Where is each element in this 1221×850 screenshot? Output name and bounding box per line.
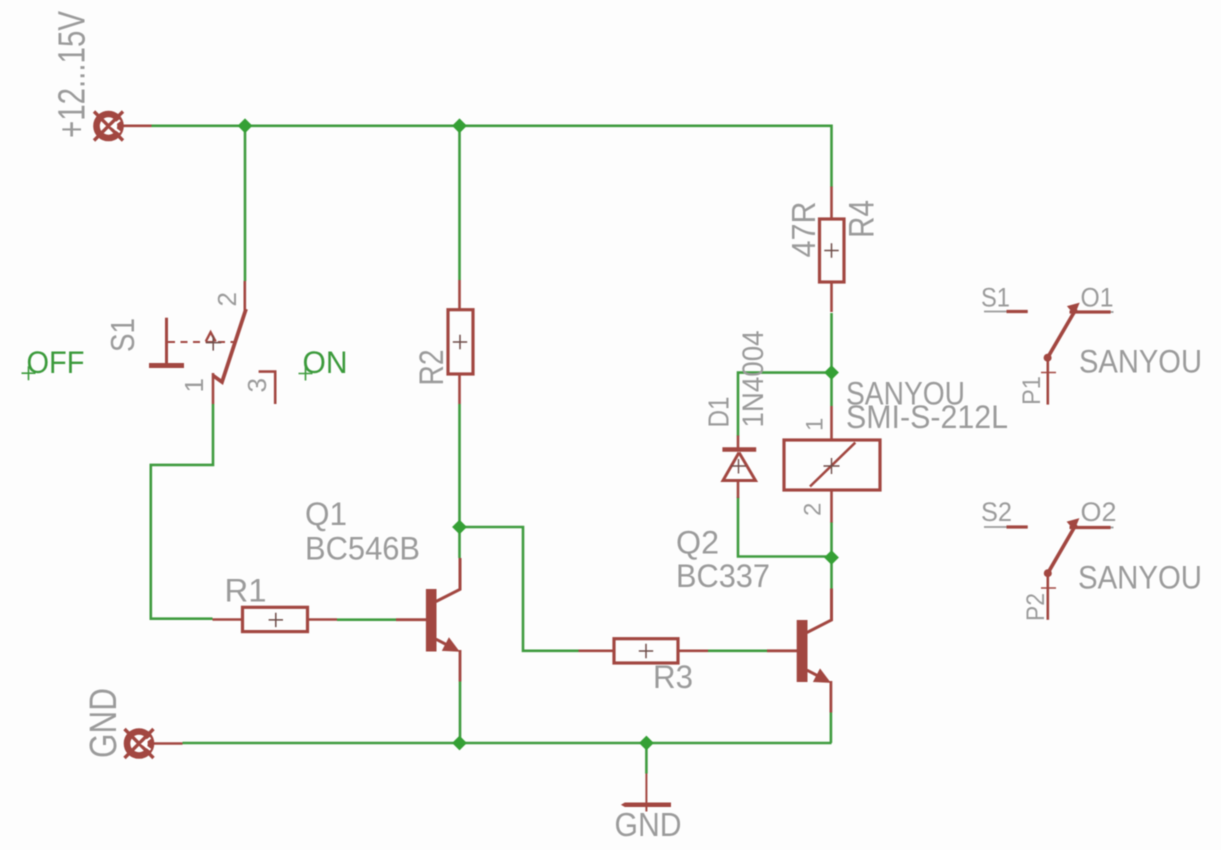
R4_GROUP bbox=[785, 187, 882, 313]
transistor Q2 emitter stroke bbox=[807, 670, 823, 678]
svg-text:S1: S1 bbox=[104, 318, 141, 352]
svg-text:BC546B: BC546B bbox=[305, 531, 420, 567]
resistor R3 origin cross bbox=[639, 644, 653, 658]
transistor Q2 base pin bbox=[767, 649, 798, 652]
relay contact 1 O pin gray line bbox=[1081, 311, 1114, 313]
svg-text:BC337: BC337 bbox=[676, 558, 770, 594]
wire S1 pin1 down-left-down to R1 left bbox=[151, 404, 213, 619]
ground pad GND (circle with X) bbox=[125, 729, 154, 758]
relay contact 1 S pin gray line bbox=[984, 311, 1028, 313]
svg-text:1: 1 bbox=[802, 418, 829, 431]
transistor Q1 collector stroke bbox=[436, 558, 460, 602]
switch S1 caret mark on link bbox=[206, 332, 216, 341]
node OFF origin cross bbox=[22, 366, 36, 380]
resistor R1 right pin bbox=[308, 618, 338, 621]
relay K1 pin 1 stub bbox=[830, 406, 833, 440]
resistor R2 bottom pin bbox=[458, 374, 461, 404]
wire S1 pin2 branch down from top rail bbox=[244, 126, 247, 281]
transistor Q2 base bar bbox=[797, 620, 808, 682]
R3_GROUP bbox=[579, 639, 709, 695]
ground symbol stem bbox=[645, 774, 647, 812]
resistor R1 origin cross bbox=[269, 613, 283, 627]
switch S1 mechanical dashed link bbox=[168, 341, 235, 343]
svg-text:D1: D1 bbox=[704, 397, 736, 428]
svg-text:1N4004: 1N4004 bbox=[737, 331, 770, 428]
relay contact 1 lever bbox=[1048, 309, 1076, 358]
switch S1 pin 2 stub bbox=[244, 281, 247, 311]
resistor R4 bottom pin bbox=[830, 282, 833, 312]
S1_GROUP bbox=[22, 281, 348, 404]
transistor Q1 emitter pin bbox=[459, 650, 462, 682]
relay contact 2 pivot dot bbox=[1044, 569, 1052, 577]
svg-text:O2: O2 bbox=[1081, 497, 1117, 527]
resistor R4 body bbox=[820, 219, 845, 282]
wire R2 bottom to Q1 collector node bbox=[458, 404, 461, 558]
JUNCTIONS_GROUP bbox=[238, 118, 839, 750]
transistor Q1 emitter stroke bbox=[436, 639, 452, 647]
relay K1 pin 2 stub bbox=[830, 490, 833, 523]
transistor Q1 base bar bbox=[426, 589, 437, 652]
relay contact 2 O pin stub bbox=[1070, 526, 1111, 529]
resistor R1 body bbox=[243, 607, 308, 631]
junction top rail / S1 branch bbox=[238, 118, 253, 133]
Q1_GROUP bbox=[305, 496, 460, 682]
resistor R4 top pin bbox=[830, 187, 833, 220]
relay contact 2 S pin stub bbox=[1007, 525, 1028, 528]
resistor R3 body bbox=[614, 639, 678, 663]
relay contact 1 lever arrowhead bbox=[1067, 303, 1080, 316]
svg-text:R2: R2 bbox=[413, 350, 451, 386]
switch S1 origin cross bbox=[206, 336, 221, 351]
switch S1 pin 1 stub bbox=[212, 373, 215, 404]
relay contact 2 lever arrowhead bbox=[1067, 518, 1080, 531]
svg-text:GND: GND bbox=[83, 688, 125, 758]
transistor Q2 emitter pin bbox=[830, 681, 833, 713]
relay contact 1 S pin stub bbox=[1007, 310, 1028, 313]
svg-text:R4: R4 bbox=[843, 200, 882, 238]
svg-text:2: 2 bbox=[212, 292, 242, 306]
relay contact 2 lever bbox=[1048, 525, 1076, 574]
svg-text:R3: R3 bbox=[653, 659, 693, 695]
transistor Q2 collector stroke bbox=[807, 589, 832, 633]
svg-text:S2: S2 bbox=[981, 497, 1012, 527]
GND2_GROUP bbox=[615, 774, 682, 844]
svg-text:Q2: Q2 bbox=[676, 525, 719, 561]
svg-text:2: 2 bbox=[800, 503, 827, 516]
node ON origin cross bbox=[299, 367, 313, 381]
switch S1 actuator plunger bbox=[165, 318, 168, 366]
svg-text:SMI-S-212L: SMI-S-212L bbox=[846, 399, 1008, 435]
switch S1 lever bbox=[213, 309, 246, 382]
transistor Q1 emitter arrow bbox=[442, 637, 460, 652]
diode D1 anode triangle bbox=[723, 453, 756, 481]
svg-text:ON: ON bbox=[303, 344, 348, 380]
ground pad pin stub bbox=[152, 742, 183, 745]
relay K1 coil box bbox=[784, 440, 880, 490]
junction relay pin2 / D1 / Q2 collector bbox=[824, 550, 839, 565]
relay contact 2 O pin gray line bbox=[1081, 527, 1114, 529]
wire bottom GND rail bbox=[183, 742, 832, 745]
svg-text:SANYOU: SANYOU bbox=[1079, 344, 1202, 380]
D1_GROUP bbox=[704, 331, 771, 499]
relay contact 1 P pin stub bbox=[1047, 359, 1050, 405]
resistor R2 top pin bbox=[458, 280, 461, 310]
resistor R1 left pin bbox=[213, 618, 243, 621]
junction Q1 collector / R3 branch bbox=[452, 520, 467, 535]
wire Q2 collector node to relay pin2 bbox=[830, 522, 833, 589]
svg-text:Q1: Q1 bbox=[305, 496, 347, 532]
junction bottom rail / Q1 emitter bbox=[452, 736, 467, 751]
junction top rail / R2 bbox=[452, 118, 467, 133]
relay K1 coil diagonal bbox=[810, 443, 855, 487]
svg-text:1: 1 bbox=[179, 378, 209, 392]
relay contact 1 O pin stub bbox=[1070, 310, 1111, 313]
R1_GROUP bbox=[213, 573, 338, 632]
switch S1 actuator base bar bbox=[149, 363, 184, 368]
relay K1 origin cross bbox=[824, 458, 840, 474]
Q2_GROUP bbox=[676, 525, 832, 713]
WIRES_GROUP bbox=[151, 126, 832, 774]
diode D1 origin cross bbox=[731, 459, 746, 474]
wire Q2 emitter to bottom rail bbox=[830, 713, 833, 744]
diode D1 cathode bar bbox=[722, 447, 756, 452]
wire R4 bottom to relay pin1 bbox=[830, 313, 833, 406]
svg-text:SANYOU: SANYOU bbox=[1078, 560, 1202, 596]
resistor R4 origin cross bbox=[824, 243, 838, 257]
CONTACT2_GROUP bbox=[981, 497, 1202, 621]
svg-text:O1: O1 bbox=[1081, 283, 1114, 313]
svg-text:OFF: OFF bbox=[27, 344, 85, 380]
junction bottom rail / GND2 bbox=[639, 736, 654, 751]
svg-text:+12...15V: +12...15V bbox=[52, 10, 94, 138]
wire D1 anode bottom across to Q2 collector node bbox=[738, 497, 832, 557]
wire Q1 emitter to bottom rail bbox=[459, 682, 462, 744]
wire R3 right to Q2 base bbox=[708, 649, 767, 652]
svg-text:3: 3 bbox=[242, 378, 272, 392]
switch S1 pin 3 stub bbox=[259, 372, 276, 404]
resistor R2 body bbox=[448, 310, 473, 374]
svg-text:47R: 47R bbox=[785, 202, 822, 258]
supply pin stub bbox=[122, 125, 152, 128]
diode D1 anode pin bottom bbox=[737, 479, 740, 498]
wire top rail to R2 top bbox=[458, 126, 461, 280]
supply symbol P+ pad (circle with X) bbox=[94, 112, 123, 141]
junction relay pin1 / D1 / R4 bbox=[824, 365, 839, 380]
R2_GROUP bbox=[413, 280, 473, 404]
ground symbol bar bbox=[621, 803, 671, 808]
wire R1 right to Q1 base bbox=[337, 618, 396, 621]
diode D1 cathode pin top bbox=[737, 436, 740, 451]
relay contact 2 S pin gray line bbox=[984, 526, 1028, 528]
resistor R3 left pin bbox=[579, 649, 615, 652]
svg-text:S1: S1 bbox=[981, 283, 1010, 313]
relay contact 1 origin tick bbox=[1041, 372, 1056, 374]
SUPPLY_GROUP bbox=[52, 10, 152, 140]
svg-text:R1: R1 bbox=[225, 573, 267, 609]
resistor R2 origin cross bbox=[453, 335, 467, 349]
resistor R3 right pin bbox=[678, 649, 708, 652]
relay contact 2 P pin stub bbox=[1047, 575, 1050, 620]
svg-text:GND: GND bbox=[615, 806, 682, 843]
wire D1 cathode top across to relay pin1 node bbox=[738, 373, 832, 436]
wire Q1 collector node to R3 left bbox=[460, 527, 579, 651]
CONTACT1_GROUP bbox=[981, 283, 1202, 406]
svg-text:P1: P1 bbox=[1018, 376, 1046, 405]
relay contact 1 pivot dot bbox=[1044, 354, 1052, 362]
wire top +12V rail from supply to R4 drop bbox=[152, 126, 832, 187]
GND1_GROUP bbox=[83, 688, 183, 758]
svg-text:P2: P2 bbox=[1022, 593, 1050, 621]
relay contact 2 origin tick bbox=[1041, 587, 1056, 589]
transistor Q2 emitter arrow bbox=[813, 668, 831, 683]
RELAY_GROUP bbox=[784, 376, 1008, 523]
transistor Q1 base pin bbox=[396, 618, 427, 621]
wire GND2 stub down from bottom rail bbox=[645, 743, 648, 774]
